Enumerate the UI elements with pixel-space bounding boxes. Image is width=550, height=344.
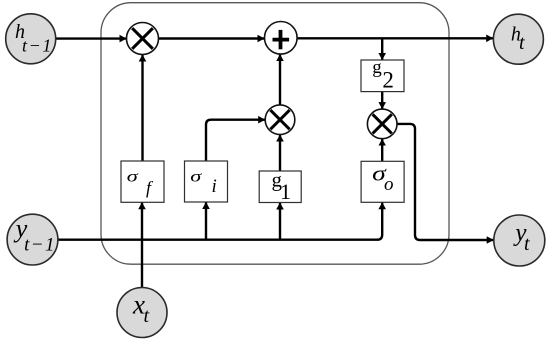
svg-text:1: 1 <box>280 179 291 204</box>
svg-text:t−1: t−1 <box>24 234 56 255</box>
svg-text:t: t <box>524 233 530 255</box>
svg-text:i: i <box>212 176 217 197</box>
svg-text:t: t <box>519 32 525 54</box>
svg-text:o: o <box>384 174 394 195</box>
svg-text:t−1: t−1 <box>22 35 53 55</box>
svg-text:t: t <box>144 305 150 327</box>
svg-text:g: g <box>372 57 382 78</box>
svg-text:2: 2 <box>382 67 394 92</box>
svg-text:σ: σ <box>127 169 140 186</box>
svg-text:σ: σ <box>190 169 203 186</box>
